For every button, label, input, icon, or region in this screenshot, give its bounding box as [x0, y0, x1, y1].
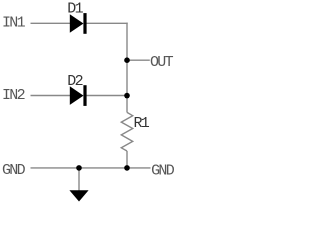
wire ground stub: [78, 168, 80, 191]
svg-text:D2: D2: [67, 73, 82, 90]
resistor R1: [121, 112, 132, 151]
wire D1 cathode to node column: [86, 22, 127, 24]
svg-text:IN1: IN1: [2, 15, 26, 32]
svg-text:OUT: OUT: [150, 54, 174, 71]
wire resistor bottom to GND rail: [126, 151, 128, 168]
junction node OUT: [124, 57, 130, 63]
junction node GND left: [76, 165, 82, 171]
diode D2: [70, 85, 87, 106]
svg-text:IN2: IN2: [2, 87, 25, 104]
diode D1: [70, 13, 87, 34]
wire OUT stub: [127, 59, 150, 61]
junction node GND right: [124, 165, 130, 171]
svg-text:GND: GND: [2, 162, 26, 179]
junction node D2/bus: [124, 93, 130, 99]
svg-text:R1: R1: [134, 115, 150, 132]
svg-text:D1: D1: [67, 1, 83, 18]
wire IN2 lead: [31, 95, 71, 97]
wire D2 cathode to node column: [86, 95, 127, 97]
ground symbol: [69, 190, 88, 201]
svg-text:GND: GND: [151, 163, 175, 180]
wire vertical bus from corner down to resistor top: [126, 23, 128, 113]
wire GND rail: [31, 167, 151, 169]
wire IN1 lead: [31, 22, 71, 24]
